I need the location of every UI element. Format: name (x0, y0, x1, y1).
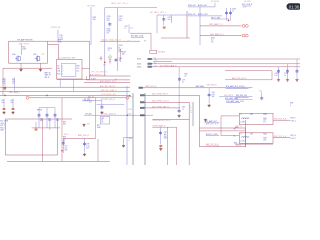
svg-text:0.1u: 0.1u (212, 94, 215, 96)
svg-text:DIN: DIN (57, 71, 60, 73)
svg-text:C62: C62 (56, 118, 59, 120)
svg-text:I2S BUS: I2S BUS (158, 52, 166, 54)
svg-text:AMP GAIN: AMP GAIN (196, 85, 205, 88)
svg-text:MIC_IN: MIC_IN (88, 96, 95, 98)
svg-text:AUD_SPKR_EN_R: AUD_SPKR_EN_R (152, 93, 168, 96)
svg-text:0.1u: 0.1u (56, 120, 59, 122)
svg-text:I2S: I2S (154, 58, 156, 60)
svg-text:L4: L4 (240, 134, 242, 136)
svg-text:FB12: FB12 (263, 114, 267, 116)
svg-text:CON_1: CON_1 (290, 121, 295, 123)
svg-text:VBST_R: VBST_R (235, 126, 242, 128)
svg-text:IN+: IN+ (234, 129, 237, 131)
svg-text:C60: C60 (40, 118, 43, 120)
svg-text:R88: R88 (290, 103, 293, 105)
svg-text:1u: 1u (182, 108, 184, 110)
svg-text:R98: R98 (63, 122, 66, 124)
svg-text:CON_2: CON_2 (290, 138, 295, 140)
svg-text:PIN_4: PIN_4 (0, 127, 5, 129)
svg-text:C62: C62 (11, 100, 14, 102)
svg-text:C61: C61 (48, 118, 51, 120)
svg-text:SPK_L: SPK_L (64, 134, 69, 136)
svg-text:R301: R301 (263, 118, 267, 120)
svg-text:1 2: 1 2 (244, 7, 246, 9)
svg-text:R80: R80 (128, 114, 131, 116)
svg-text:J10 SPK: J10 SPK (244, 1, 251, 3)
svg-text:22: 22 (184, 76, 186, 78)
svg-text:R79: R79 (101, 118, 104, 120)
svg-text:C82: C82 (164, 132, 167, 134)
svg-text:1u: 1u (232, 11, 234, 13)
svg-text:22: 22 (108, 50, 110, 52)
svg-text:PIN_2: PIN_2 (0, 125, 5, 127)
svg-text:1u: 1u (284, 75, 286, 77)
svg-text:4R7: 4R7 (103, 64, 106, 66)
svg-text:R303 0: R303 0 (236, 145, 241, 147)
svg-text:R302: R302 (263, 137, 267, 139)
svg-text:SPK_P: SPK_P (290, 118, 295, 120)
svg-text:AUD_MIC_DET_R: AUD_MIC_DET_R (100, 85, 116, 88)
svg-text:SPK_N: SPK_N (290, 135, 296, 137)
svg-text:AMP_SHDN#: AMP_SHDN# (19, 42, 29, 45)
svg-text:2.2uH: 2.2uH (240, 122, 244, 124)
svg-text:R99: R99 (63, 137, 66, 139)
svg-text:0: 0 (129, 140, 130, 142)
svg-text:4R7: 4R7 (250, 114, 253, 116)
svg-text:U2: U2 (128, 41, 130, 43)
svg-text:R97: R97 (97, 125, 100, 127)
svg-text:R78: R78 (129, 109, 132, 111)
svg-text:R62: R62 (12, 79, 15, 81)
svg-text:DIN: DIN (154, 65, 157, 67)
svg-text:C97: C97 (65, 146, 68, 148)
svg-text:4R7: 4R7 (250, 134, 253, 136)
svg-text:CON_L: CON_L (0, 123, 5, 125)
svg-text:2.2uH: 2.2uH (240, 140, 244, 142)
svg-text:10u: 10u (11, 102, 14, 104)
svg-text:R77: R77 (89, 102, 92, 104)
svg-text:C90: C90 (259, 91, 262, 93)
svg-text:R 4R7: R 4R7 (91, 79, 96, 81)
svg-text:U19 PI3A: U19 PI3A (87, 4, 95, 7)
svg-text:HP_OUT_3PCS_R: HP_OUT_3PCS_R (92, 71, 108, 73)
svg-text:C80: C80 (182, 107, 185, 109)
svg-text:0.1u: 0.1u (40, 120, 43, 122)
svg-text:3 PCS R1005_4R7: 3 PCS R1005_4R7 (101, 94, 116, 96)
svg-text:C61: C61 (2, 100, 5, 102)
svg-text:PP3V3: PP3V3 (37, 109, 42, 111)
svg-text:0.1u: 0.1u (86, 145, 89, 147)
svg-text:C98: C98 (86, 144, 89, 146)
svg-text:OU-: OU- (77, 71, 80, 73)
svg-text:L3: L3 (240, 114, 242, 116)
svg-text:SPKR_BOOST_5V_R: SPKR_BOOST_5V_R (153, 120, 171, 122)
svg-text:22: 22 (101, 120, 103, 122)
svg-text:SPKR_VBAT_R: SPKR_VBAT_R (153, 124, 166, 127)
svg-text:HP_JACK_DET_L: HP_JACK_DET_L (150, 11, 167, 14)
svg-text:C250: C250 (275, 73, 279, 75)
svg-text:C83: C83 (212, 92, 215, 94)
svg-text:AUD_SPKR_CLK_R: AUD_SPKR_CLK_R (152, 100, 169, 103)
svg-text:22: 22 (119, 60, 121, 62)
svg-text:0: 0 (290, 105, 291, 107)
svg-text:INT_SPKR: INT_SPKR (0, 121, 9, 123)
svg-text:SPK_AMP_SDZ_CON_R: SPK_AMP_SDZ_CON_R (226, 85, 246, 88)
svg-text:I2S_SPKR_DATA_R: I2S_SPKR_DATA_R (160, 64, 177, 67)
svg-text:AMP_SDZ_R: AMP_SDZ_R (146, 85, 157, 88)
svg-text:R58: R58 (41, 54, 44, 56)
svg-text:R95: R95 (129, 138, 132, 140)
svg-text:OU+: OU+ (77, 68, 80, 70)
svg-text:R8: R8 (144, 41, 146, 43)
svg-text:PP3V3 C41: PP3V3 C41 (51, 27, 60, 29)
svg-text:HP_AMP PWR EN: HP_AMP PWR EN (17, 39, 33, 42)
svg-text:R61: R61 (2, 79, 5, 81)
svg-text:C251: C251 (284, 73, 288, 75)
svg-text:1u: 1u (182, 81, 184, 83)
svg-text:10u: 10u (164, 134, 167, 136)
svg-text:AMP_OUT_P_R: AMP_OUT_P_R (206, 122, 219, 125)
svg-text:Q12: Q12 (130, 28, 133, 30)
svg-text:R96: R96 (87, 123, 90, 125)
svg-text:AUD_SPKR_DAT_R: AUD_SPKR_DAT_R (152, 105, 169, 108)
svg-text:FB13: FB13 (263, 134, 267, 136)
svg-text:10u: 10u (168, 19, 171, 21)
svg-text:C79: C79 (182, 80, 185, 82)
svg-text:BCL: BCL (154, 62, 157, 64)
svg-text:R84: R84 (119, 58, 122, 60)
svg-text:01:36: 01:36 (289, 4, 300, 9)
svg-text:0.1u: 0.1u (275, 75, 278, 77)
svg-text:AMP_VDD_R: AMP_VDD_R (78, 134, 90, 137)
svg-text:BST_SPK_R: BST_SPK_R (207, 84, 218, 86)
svg-text:0: 0 (125, 28, 126, 30)
svg-text:HP_DET_3V3_R: HP_DET_3V3_R (101, 99, 115, 101)
svg-text:JACK_DET_3V3_L: JACK_DET_3V3_L (111, 2, 129, 5)
svg-text:10u: 10u (65, 147, 68, 149)
svg-text:0.1u: 0.1u (48, 120, 51, 122)
svg-text:10u: 10u (2, 102, 5, 104)
